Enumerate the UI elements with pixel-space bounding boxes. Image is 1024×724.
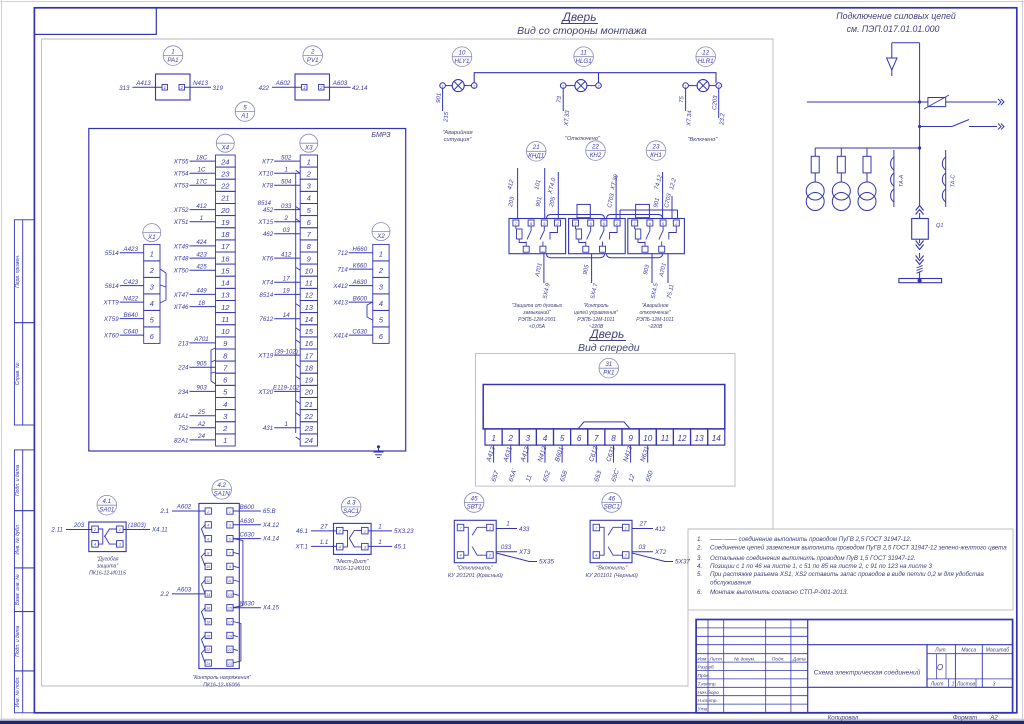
svg-text:Q1: Q1	[936, 223, 943, 229]
svg-text:отключение": отключение"	[639, 310, 670, 316]
svg-text:А2: А2	[989, 714, 998, 721]
svg-text:Листов: Листов	[956, 681, 976, 687]
svg-text:7: 7	[594, 434, 599, 443]
svg-text:13: 13	[228, 593, 232, 597]
svg-text:5: 5	[560, 434, 565, 443]
svg-text:1: 1	[952, 681, 955, 687]
svg-text:"Контроль напряжения": "Контроль напряжения"	[192, 675, 252, 681]
svg-text:Пров.: Пров.	[698, 673, 711, 679]
svg-text:31: 31	[605, 361, 612, 368]
svg-text:ХТ50: ХТ50	[173, 268, 189, 275]
svg-text:1: 1	[506, 521, 509, 528]
svg-text:1: 1	[378, 539, 381, 546]
svg-text:23: 23	[220, 169, 230, 178]
svg-text:6: 6	[207, 538, 209, 542]
svg-text:К660: К660	[353, 262, 368, 269]
svg-text:03: 03	[283, 227, 290, 234]
svg-text:412: 412	[196, 203, 207, 210]
svg-text:ТА-А: ТА-А	[899, 174, 905, 187]
svg-text:504: 504	[281, 179, 292, 186]
svg-text:1: 1	[223, 436, 227, 445]
svg-text:1: 1	[284, 166, 287, 173]
svg-text:1: 1	[625, 525, 627, 530]
svg-text:1: 1	[562, 84, 564, 88]
svg-text:~220В: ~220В	[648, 324, 663, 330]
svg-text:10: 10	[459, 50, 466, 57]
svg-text:Взам. инв. №: Взам. инв. №	[15, 574, 21, 606]
svg-text:10: 10	[305, 266, 314, 275]
svg-text:А603: А603	[176, 586, 192, 593]
svg-text:Остальные соединения выполнить: Остальные соединения выполнить проводом …	[710, 555, 916, 562]
svg-text:5614: 5614	[105, 283, 119, 290]
svg-text:А2: А2	[197, 421, 206, 428]
svg-text:45.1: 45.1	[394, 544, 406, 551]
svg-text:16: 16	[305, 339, 314, 348]
svg-text:Лист: Лист	[709, 656, 722, 662]
svg-text:КУ 201101 (Черный): КУ 201101 (Черный)	[586, 572, 638, 579]
svg-text:Масса: Масса	[961, 648, 976, 654]
svg-text:9: 9	[628, 434, 633, 443]
svg-text:18С: 18С	[196, 154, 208, 161]
svg-text:ХТ4: ХТ4	[261, 280, 274, 287]
svg-text:13: 13	[695, 434, 705, 443]
svg-text:Подп.: Подп.	[772, 656, 785, 662]
svg-text:РЭПБ-12М-1011: РЭПБ-12М-1011	[577, 317, 615, 323]
svg-text:1: 1	[489, 525, 491, 530]
svg-text:А603: А603	[332, 80, 348, 87]
svg-text:2.: 2.	[696, 545, 702, 552]
svg-text:14: 14	[283, 312, 290, 319]
svg-text:ХТ60: ХТ60	[103, 333, 119, 340]
svg-text:033: 033	[281, 203, 292, 210]
svg-text:5: 5	[229, 538, 231, 542]
svg-text:ХТ47: ХТ47	[173, 292, 189, 299]
svg-text:13: 13	[221, 291, 230, 300]
svg-text:24: 24	[304, 436, 313, 445]
svg-text:10: 10	[221, 327, 230, 336]
svg-text:2: 2	[206, 510, 209, 514]
svg-text:А630: А630	[352, 279, 368, 286]
svg-text:ХТ7: ХТ7	[261, 159, 274, 166]
svg-text:65.В: 65.В	[263, 508, 276, 515]
svg-text:1: 1	[379, 249, 383, 258]
svg-text:КУ 201201 (Красный): КУ 201201 (Красный)	[448, 572, 503, 579]
svg-text:12: 12	[221, 303, 230, 312]
svg-text:3: 3	[993, 681, 996, 687]
svg-text:73: 73	[557, 95, 563, 103]
svg-text:1: 1	[150, 249, 154, 258]
svg-text:18: 18	[198, 300, 205, 307]
svg-text:КНД1: КНД1	[528, 153, 544, 160]
svg-text:14: 14	[221, 279, 229, 288]
svg-text:РК1: РК1	[603, 369, 614, 376]
svg-text:(1803): (1803)	[128, 522, 146, 529]
svg-text:2: 2	[507, 434, 513, 443]
svg-text:Х4.11: Х4.11	[151, 527, 168, 534]
svg-text:N413: N413	[193, 80, 208, 87]
svg-text:3: 3	[526, 434, 531, 443]
svg-text:903: 903	[196, 385, 207, 392]
svg-text:ХТ49: ХТ49	[173, 243, 189, 250]
svg-text:24: 24	[197, 433, 205, 440]
svg-text:8514: 8514	[258, 201, 272, 207]
svg-text:4: 4	[223, 400, 227, 409]
svg-text:замыканий": замыканий"	[522, 309, 551, 316]
svg-text:2: 2	[306, 169, 312, 178]
svg-text:3: 3	[229, 524, 231, 528]
svg-text:С203: С203	[712, 95, 719, 110]
svg-text:"Дугобая: "Дугобая	[96, 557, 118, 563]
svg-text:А1: А1	[240, 113, 249, 120]
svg-text:8514: 8514	[259, 292, 273, 299]
svg-text:Инв. № дубл.: Инв. № дубл.	[15, 524, 21, 555]
svg-text:1: 1	[303, 85, 305, 90]
svg-text:Т.контр.: Т.контр.	[698, 681, 717, 687]
svg-text:2: 2	[310, 48, 315, 55]
svg-text:6: 6	[577, 434, 582, 443]
svg-text:449: 449	[196, 288, 207, 295]
svg-text:3.: 3.	[697, 555, 702, 562]
svg-text:Подключение силовых цепей: Подключение силовых цепей	[836, 11, 956, 21]
svg-text:Разраб.: Разраб.	[698, 665, 715, 671]
svg-text:ситуация": ситуация"	[444, 137, 473, 143]
svg-text:Справ. №: Справ. №	[15, 362, 21, 385]
svg-text:Монтаж выполнить согласно СТП-: Монтаж выполнить согласно СТП-Р-001-2013…	[710, 589, 848, 596]
svg-text:"Защита от дуговых: "Защита от дуговых	[512, 303, 563, 309]
svg-text:7612: 7612	[259, 316, 273, 323]
svg-text:ХТ.33: ХТ.33	[564, 110, 571, 128]
svg-text:SВТ1: SВТ1	[467, 504, 482, 511]
svg-text:22: 22	[220, 182, 230, 191]
svg-text:"Включить": "Включить"	[596, 566, 628, 572]
svg-text:защита": защита"	[96, 564, 120, 570]
svg-text:2: 2	[717, 84, 720, 88]
svg-text:Формат: Формат	[953, 714, 978, 721]
svg-text:Х413: Х413	[332, 300, 348, 307]
svg-text:14: 14	[712, 434, 722, 443]
svg-text:1: 1	[164, 85, 166, 90]
svg-text:19: 19	[228, 634, 232, 638]
svg-text:РА1: РА1	[167, 57, 178, 64]
svg-text:1: 1	[284, 421, 287, 428]
svg-text:42.14: 42.14	[352, 85, 368, 92]
svg-text:"Отключить": "Отключить"	[456, 566, 493, 572]
svg-text:SА1N: SА1N	[214, 491, 231, 498]
svg-text:12: 12	[305, 291, 314, 300]
svg-text:ХТ2: ХТ2	[654, 549, 667, 556]
svg-text:А701: А701	[193, 336, 208, 343]
svg-text:20: 20	[220, 206, 230, 215]
svg-text:"Мест-Дист": "Мест-Дист"	[336, 559, 370, 565]
svg-text:1: 1	[171, 48, 174, 55]
svg-text:SА01: SА01	[99, 506, 114, 513]
svg-text:Н.контр.: Н.контр.	[698, 698, 718, 704]
svg-text:11: 11	[228, 579, 232, 583]
svg-text:Н660: Н660	[352, 246, 367, 253]
svg-text:224: 224	[177, 365, 189, 372]
svg-text:обслуживания: обслуживания	[710, 580, 752, 587]
svg-text:81А1: 81А1	[174, 413, 188, 420]
svg-text:"Аварийное: "Аварийное	[641, 302, 668, 309]
svg-text:ХТ19: ХТ19	[257, 353, 273, 360]
svg-text:"Аварийная: "Аварийная	[442, 129, 472, 136]
svg-text:19: 19	[221, 218, 230, 227]
svg-text:Лит.: Лит.	[934, 648, 947, 654]
svg-text:1: 1	[364, 528, 366, 533]
svg-text:21: 21	[227, 648, 232, 652]
svg-text:Масштаб: Масштаб	[986, 648, 1010, 654]
svg-text:24: 24	[220, 157, 229, 166]
svg-text:10: 10	[643, 434, 653, 443]
svg-text:Вид спереди: Вид спереди	[578, 342, 640, 354]
svg-text:2: 2	[149, 266, 155, 275]
svg-text:8: 8	[207, 551, 209, 555]
svg-text:1: 1	[442, 84, 444, 88]
svg-text:КН1: КН1	[650, 152, 662, 159]
svg-text:11: 11	[221, 315, 229, 324]
svg-text:Изм: Изм	[697, 656, 707, 662]
svg-text:2.11: 2.11	[50, 527, 63, 534]
svg-text:РЭПБ-12М-1011: РЭПБ-12М-1011	[636, 317, 674, 323]
svg-text:234: 234	[177, 389, 189, 396]
svg-text:ХТ51: ХТ51	[173, 219, 189, 226]
svg-text:Х3: Х3	[304, 144, 313, 151]
svg-text:О: О	[937, 663, 943, 672]
svg-text:5514: 5514	[105, 250, 119, 257]
svg-text:20: 20	[205, 634, 210, 638]
svg-text:17: 17	[305, 351, 314, 360]
svg-text:46: 46	[608, 495, 615, 502]
svg-text:12: 12	[702, 50, 709, 57]
svg-text:9: 9	[229, 565, 231, 569]
svg-text:1.: 1.	[697, 536, 702, 543]
svg-text:В600: В600	[240, 504, 255, 511]
svg-text:19: 19	[305, 376, 314, 385]
svg-text:11: 11	[305, 279, 313, 288]
svg-text:14: 14	[206, 593, 210, 597]
svg-text:Подп. и дата: Подп. и дата	[15, 464, 21, 496]
svg-text:ТА-С: ТА-С	[951, 174, 957, 188]
svg-text:ХТ6: ХТ6	[261, 256, 274, 263]
svg-text:ПК16-12-И0115: ПК16-12-И0115	[89, 571, 126, 577]
svg-text:А602: А602	[275, 80, 291, 87]
svg-text:24: 24	[205, 662, 210, 666]
svg-text:БМРЗ: БМРЗ	[371, 132, 391, 139]
svg-text:N630: N630	[240, 601, 255, 608]
svg-text:03: 03	[639, 544, 646, 551]
svg-text:4: 4	[150, 299, 154, 308]
svg-text:ХТ.34: ХТ.34	[686, 110, 693, 128]
svg-text:1: 1	[229, 510, 231, 514]
svg-text:46.1: 46.1	[296, 528, 308, 535]
svg-text:SАС1: SАС1	[343, 508, 359, 515]
svg-text:17: 17	[221, 242, 230, 251]
svg-text:23: 23	[304, 424, 314, 433]
svg-text:2: 2	[378, 266, 384, 275]
svg-text:5Х35: 5Х35	[539, 559, 554, 566]
svg-text:Соединение цепей заземления вы: Соединение цепей заземления выполнить пр…	[710, 545, 1007, 552]
svg-text:1: 1	[200, 215, 203, 222]
svg-text:Вид со стороны монтажа: Вид со стороны монтажа	[517, 25, 647, 37]
svg-text:Лист: Лист	[930, 681, 944, 687]
svg-text:412: 412	[281, 251, 292, 258]
svg-text:15: 15	[228, 607, 232, 611]
svg-text:215: 215	[443, 111, 450, 123]
svg-text:В640: В640	[123, 312, 138, 319]
svg-text:HLG1: HLG1	[576, 58, 592, 65]
svg-text:15: 15	[221, 266, 230, 275]
svg-text:КН2: КН2	[590, 152, 602, 159]
svg-text:1: 1	[378, 523, 381, 530]
svg-text:——·—— соединение выполнить про: ——·—— соединение выполнить проводом ПуГВ…	[709, 536, 911, 543]
svg-text:2.2: 2.2	[159, 591, 169, 598]
svg-text:ПК16-12-И0101: ПК16-12-И0101	[333, 566, 370, 572]
svg-text:РЭПБ-12М-2001: РЭПБ-12М-2001	[518, 317, 556, 323]
svg-text:13: 13	[305, 303, 314, 312]
svg-text:ХТ20: ХТ20	[257, 389, 273, 396]
svg-text:423: 423	[196, 251, 207, 258]
svg-text:ХТ3: ХТ3	[518, 549, 531, 556]
svg-text:Перв. примен.: Перв. примен.	[15, 255, 21, 288]
svg-text:ХТТ9: ХТТ9	[103, 300, 120, 307]
svg-text:75: 75	[679, 95, 685, 103]
svg-text:Копировал: Копировал	[828, 714, 859, 721]
svg-text:462: 462	[263, 231, 274, 238]
svg-text:ПК16-12-Х6006: ПК16-12-Х6006	[203, 683, 240, 689]
svg-text:23: 23	[652, 143, 660, 150]
svg-text:1.1: 1.1	[320, 539, 329, 546]
svg-text:27: 27	[639, 521, 647, 528]
svg-text:Подп. и дата: Подп. и дата	[15, 625, 21, 657]
svg-text:4: 4	[543, 434, 548, 443]
svg-text:В600: В600	[353, 295, 368, 302]
svg-text:ХТ53: ХТ53	[173, 183, 189, 190]
svg-text:"Контроль: "Контроль	[583, 303, 609, 309]
svg-text:2: 2	[597, 84, 600, 88]
svg-text:<0,05А: <0,05А	[529, 324, 546, 330]
svg-text:4.3: 4.3	[347, 500, 356, 507]
svg-text:5Х3.23: 5Х3.23	[394, 528, 414, 535]
svg-text:12: 12	[677, 434, 687, 443]
svg-text:4: 4	[379, 299, 383, 308]
svg-text:HLY1: HLY1	[455, 58, 470, 65]
svg-text:203: 203	[73, 522, 85, 529]
svg-text:При растяжке разъема ХS1, ХS2: При растяжке разъема ХS1, ХS2 оставить з…	[710, 571, 984, 578]
svg-text:11: 11	[661, 434, 670, 443]
svg-text:22: 22	[591, 143, 599, 150]
svg-text:19: 19	[283, 288, 290, 295]
svg-text:Утв.: Утв.	[698, 707, 709, 713]
svg-text:ХТ46: ХТ46	[173, 304, 189, 311]
svg-text:ХТ15: ХТ15	[257, 219, 273, 226]
svg-text:905: 905	[196, 360, 207, 367]
svg-text:Х4.12: Х4.12	[262, 522, 280, 529]
svg-text:ХТ10: ХТ10	[257, 171, 273, 178]
svg-text:452: 452	[263, 207, 274, 214]
svg-text:18: 18	[221, 230, 230, 239]
svg-text:4: 4	[307, 194, 311, 203]
svg-text:~220В: ~220В	[589, 324, 604, 330]
svg-text:4: 4	[207, 524, 209, 528]
svg-text:2: 2	[222, 424, 228, 433]
svg-text:6.: 6.	[697, 589, 702, 596]
svg-text:17С: 17С	[196, 179, 208, 186]
svg-text:23: 23	[227, 662, 232, 666]
svg-text:С423: С423	[123, 279, 138, 286]
svg-text:20: 20	[304, 388, 314, 397]
svg-text:5: 5	[243, 104, 247, 111]
svg-text:С630: С630	[240, 532, 255, 539]
svg-text:Дверь: Дверь	[560, 10, 596, 24]
svg-text:033: 033	[501, 544, 512, 551]
svg-text:901: 901	[436, 93, 443, 103]
svg-text:см. ПЭП.017.01.01.000: см. ПЭП.017.01.01.000	[847, 24, 940, 34]
svg-text:1: 1	[307, 157, 311, 166]
svg-text:Схема электрическая соединений: Схема электрическая соединений	[814, 669, 921, 677]
svg-text:5.: 5.	[697, 571, 702, 578]
svg-text:1: 1	[685, 84, 687, 88]
svg-text:11: 11	[580, 50, 586, 57]
svg-text:23.2: 23.2	[719, 112, 726, 126]
svg-text:14: 14	[305, 315, 313, 324]
svg-text:431: 431	[263, 425, 273, 432]
svg-text:(39-102): (39-102)	[275, 348, 298, 355]
svg-text:SВС1: SВС1	[604, 504, 620, 511]
svg-text:4.: 4.	[697, 563, 702, 570]
svg-text:ХТ54: ХТ54	[173, 171, 189, 178]
svg-text:ХТ48: ХТ48	[173, 256, 189, 263]
svg-text:21: 21	[220, 194, 229, 203]
svg-text:21: 21	[304, 400, 313, 409]
svg-text:2: 2	[283, 215, 288, 222]
svg-text:ХТ.1: ХТ.1	[294, 544, 308, 551]
svg-text:8: 8	[611, 434, 616, 443]
svg-text:18: 18	[305, 363, 314, 372]
svg-text:433: 433	[519, 526, 530, 533]
svg-text:PV1: PV1	[307, 57, 319, 64]
svg-text:213: 213	[177, 340, 189, 347]
svg-text:А423: А423	[122, 246, 138, 253]
svg-text:424: 424	[196, 239, 207, 246]
svg-text:С640: С640	[123, 328, 138, 335]
svg-text:2: 2	[472, 84, 475, 88]
svg-text:ХТ52: ХТ52	[173, 207, 189, 214]
svg-text:А413: А413	[135, 80, 151, 87]
svg-text:ХТ59: ХТ59	[103, 316, 119, 323]
svg-text:1: 1	[491, 434, 496, 443]
svg-text:714: 714	[337, 267, 348, 274]
svg-text:422: 422	[259, 85, 270, 92]
svg-text:25: 25	[197, 409, 205, 416]
svg-text:10: 10	[206, 565, 210, 569]
svg-text:425: 425	[196, 263, 207, 270]
svg-text:22: 22	[304, 412, 314, 421]
svg-text:27: 27	[320, 523, 328, 530]
svg-text:ХТ55: ХТ55	[173, 159, 189, 166]
svg-text:А630: А630	[239, 518, 255, 525]
svg-text:"Включено": "Включено"	[688, 137, 719, 143]
svg-text:15: 15	[305, 327, 314, 336]
svg-text:ХТ8: ХТ8	[261, 183, 274, 190]
svg-text:22: 22	[205, 648, 210, 652]
svg-text:1: 1	[119, 527, 121, 532]
svg-text:Нач.бюро: Нач.бюро	[698, 690, 720, 696]
svg-text:45: 45	[471, 495, 478, 502]
svg-text:16: 16	[206, 607, 210, 611]
svg-text:А602: А602	[176, 504, 192, 511]
svg-text:Х1: Х1	[147, 234, 156, 241]
svg-text:Дата: Дата	[792, 656, 806, 662]
